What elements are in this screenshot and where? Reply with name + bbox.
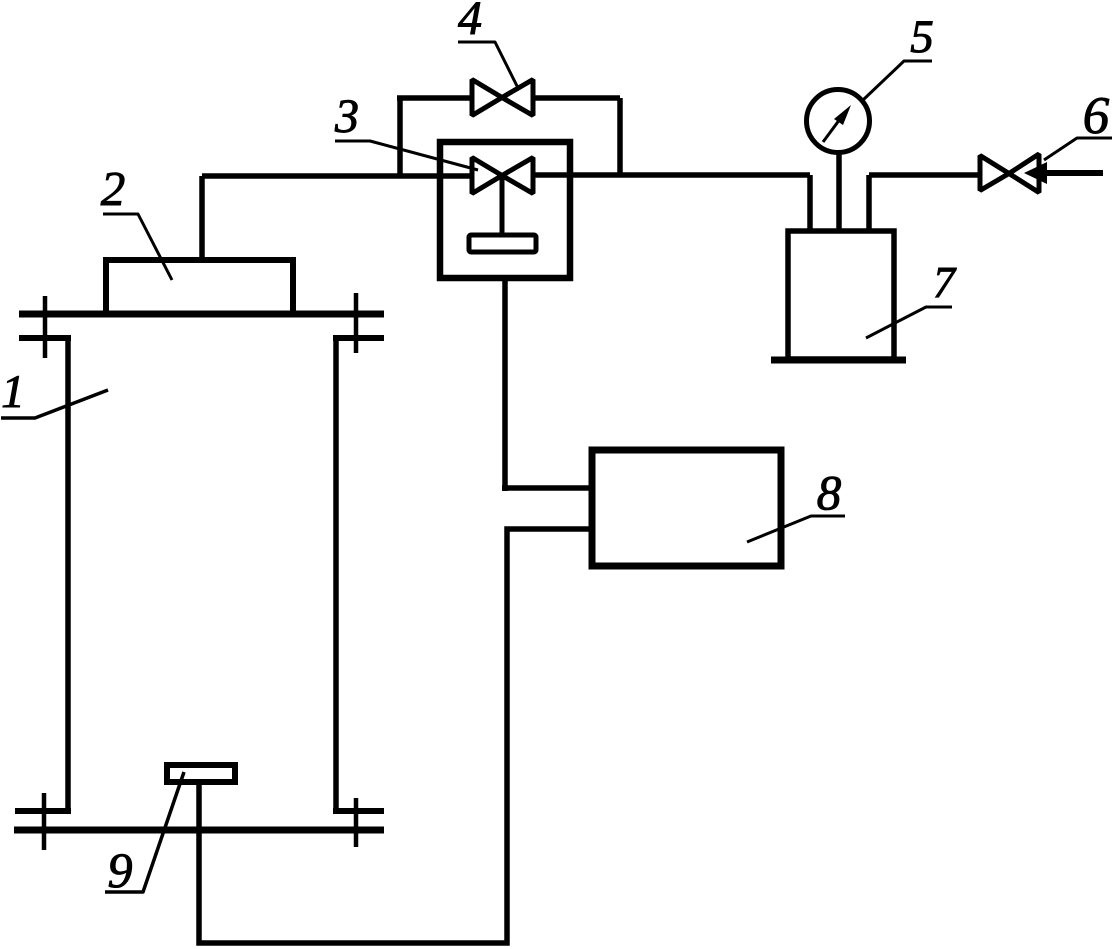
leader for label 1 [1, 390, 108, 418]
svg-text:3: 3 [334, 90, 359, 143]
wire: bypass top line left part [397, 95, 472, 101]
wire: drop from valve 3 enclosure [502, 278, 508, 491]
wire: bypass right riser [617, 98, 623, 176]
box 7 base line [771, 357, 906, 364]
leader for label 6 [1044, 138, 1112, 160]
vessel 1: bottom seam right segment [333, 808, 384, 814]
leader for label 5 [863, 61, 932, 100]
box 7 [788, 231, 894, 359]
wire: main line from riser to valve 3 enclosure [202, 173, 472, 179]
vessel 1: bottom seam left segment [15, 808, 71, 814]
wire: inlet line from right edge [1039, 170, 1103, 176]
leader for label 4 [458, 42, 519, 90]
wire: main line from valve 3 to drop at gauge tee [533, 172, 810, 178]
wire: line from riser to valve 6 [869, 172, 980, 178]
wire: bypass left riser [397, 98, 403, 176]
svg-text:4: 4 [458, 0, 482, 45]
box 8 [592, 450, 781, 566]
vessel 1: lid seam right segment [333, 335, 384, 341]
wire: box 8 lower port line, down, bottom run, riser to fitting 9 [199, 529, 592, 943]
wire: riser from device 2 [199, 176, 205, 260]
leader for label 8 [747, 516, 845, 542]
svg-text:1: 1 [1, 366, 25, 418]
vessel 1: top flange line [19, 311, 384, 318]
fitting 9 cap rectangle [167, 765, 235, 782]
valve 3 enclosure box [440, 142, 570, 278]
svg-text:8: 8 [817, 465, 842, 520]
wire: right riser from box 7 [866, 175, 872, 229]
vessel 1: bottom flange line [14, 827, 384, 834]
gauge needle arrowhead [834, 105, 851, 125]
svg-text:6: 6 [1083, 87, 1110, 145]
gauge stem into box 7 [836, 154, 842, 229]
valve 4 bowtie [472, 80, 533, 116]
valve 6 bowtie [980, 154, 1039, 193]
leader for label 3 [335, 141, 478, 170]
pressure gauge 5 circle [807, 90, 870, 153]
vessel 1: bottom-right flange tick [354, 798, 359, 847]
vessel 1: right wall [333, 335, 339, 814]
device 2 box on vessel lid [106, 260, 293, 314]
leader for label 7 [866, 307, 952, 338]
leader for label 9 [105, 772, 184, 892]
flow arrow into valve 6 [1024, 162, 1047, 184]
vessel 1: left wall [65, 335, 71, 814]
gauge needle [823, 115, 843, 142]
valve 3 bowtie [472, 158, 533, 194]
svg-text:2: 2 [101, 161, 126, 216]
wire: bypass top line right part [533, 95, 620, 101]
vessel 1: lid seam left segment [19, 335, 71, 341]
wire: left drop into box 7 [807, 175, 813, 229]
svg-text:5: 5 [910, 11, 934, 63]
vessel 1: bottom-left flange tick [42, 793, 47, 850]
leader for label 2 [103, 214, 172, 280]
vessel 1: top-right flange tick [354, 293, 359, 353]
svg-text:7: 7 [933, 258, 957, 307]
valve 3 actuator stem [500, 176, 505, 236]
vessel 1: top-left flange tick [43, 296, 48, 358]
valve 3 coil rectangle [469, 235, 536, 252]
svg-text:9: 9 [108, 842, 133, 898]
wire: stub into box 8 top port [502, 485, 592, 491]
